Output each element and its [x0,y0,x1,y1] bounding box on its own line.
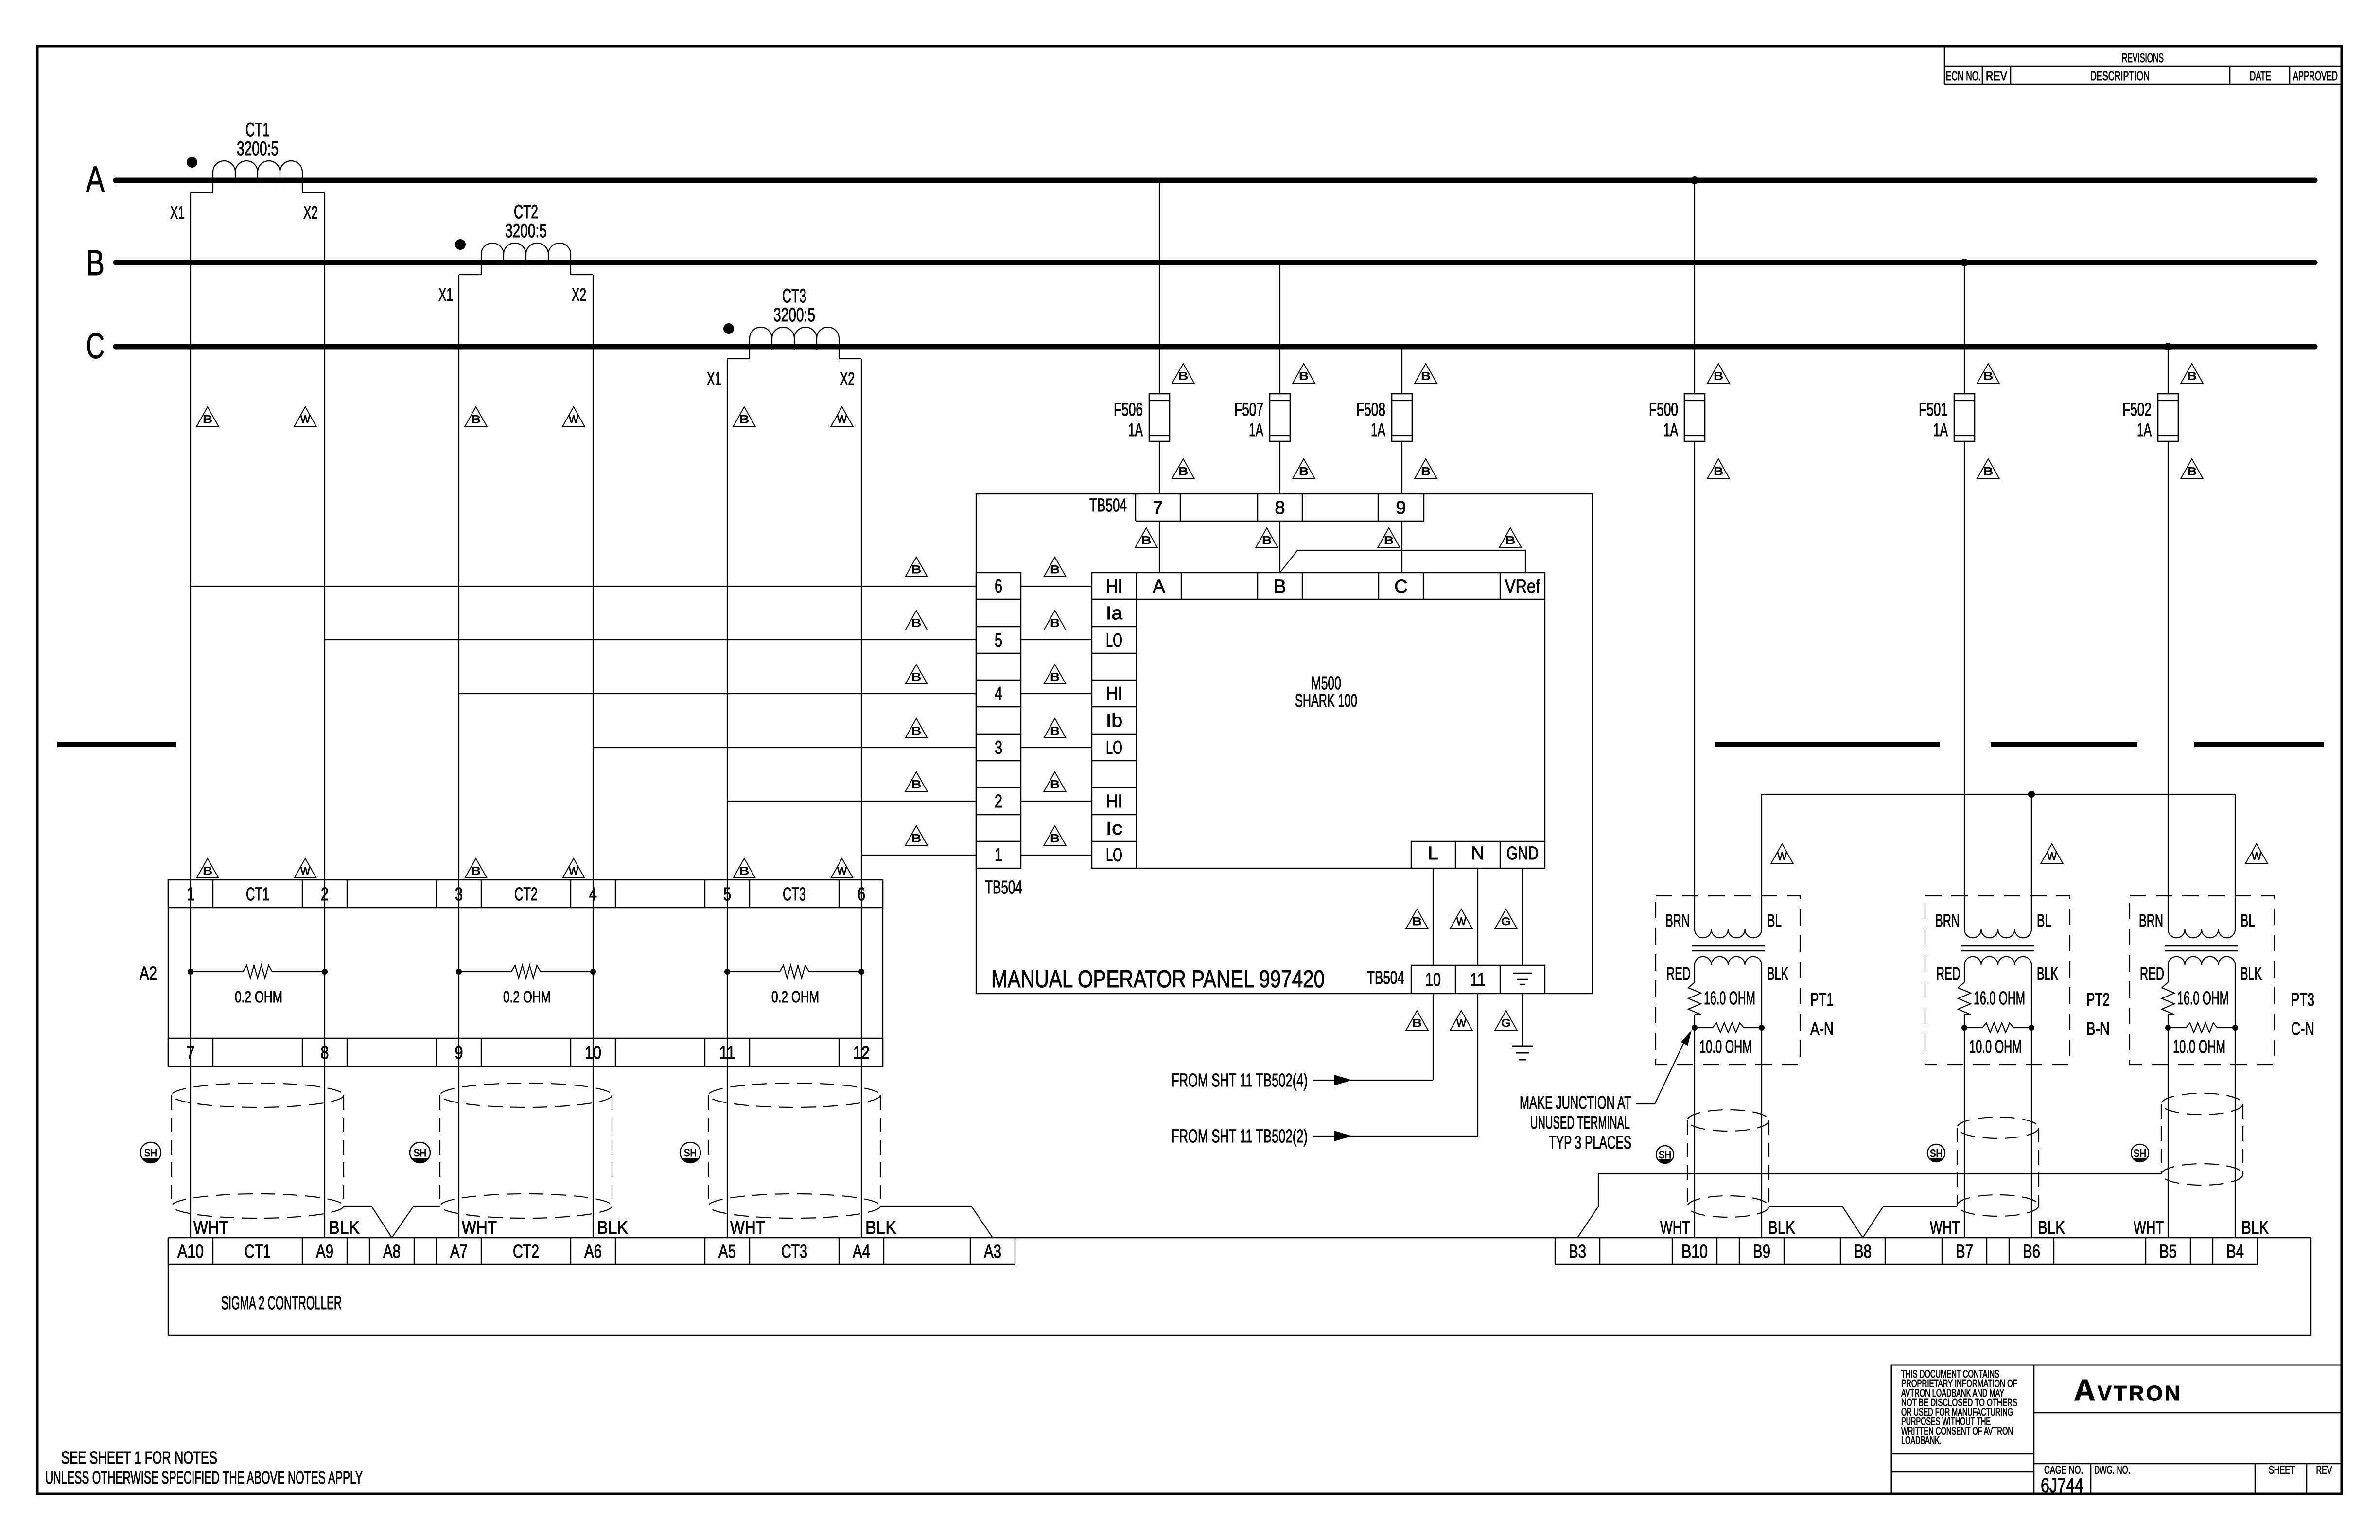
svg-text:CT2: CT2 [513,1242,539,1262]
svg-text:B10: B10 [1681,1242,1708,1262]
svg-text:SEE SHEET 1 FOR NOTES: SEE SHEET 1 FOR NOTES [61,1448,217,1468]
svg-text:TB504: TB504 [1089,495,1127,516]
svg-text:C-N: C-N [2291,1019,2314,1039]
svg-text:0.2 OHM: 0.2 OHM [235,988,282,1006]
svg-text:10: 10 [1425,970,1441,990]
svg-text:BRN: BRN [1665,910,1690,930]
svg-text:DESCRIPTION: DESCRIPTION [2090,69,2150,83]
svg-text:B9: B9 [1753,1242,1770,1262]
svg-text:F508: F508 [1356,400,1385,420]
svg-text:B: B [1141,534,1151,546]
svg-text:F501: F501 [1919,400,1948,420]
svg-text:BL: BL [1767,910,1782,930]
svg-text:9: 9 [455,1043,463,1063]
svg-text:REVISIONS: REVISIONS [2122,51,2164,65]
svg-text:CT1: CT1 [246,884,269,905]
svg-text:CT3: CT3 [783,884,806,905]
svg-text:N: N [1471,843,1484,864]
svg-text:B: B [739,865,749,877]
svg-text:6J744: 6J744 [2041,1474,2083,1497]
svg-text:B: B [911,832,921,844]
svg-text:C: C [1394,577,1407,597]
svg-text:7: 7 [1153,498,1163,518]
svg-text:B: B [911,778,921,790]
svg-text:10.0 OHM: 10.0 OHM [1699,1037,1752,1057]
svg-text:RED: RED [1666,963,1691,983]
svg-text:X1: X1 [438,285,453,305]
svg-text:B3: B3 [1569,1242,1586,1262]
svg-text:CT1: CT1 [245,1242,271,1262]
svg-text:6: 6 [857,884,865,905]
svg-text:F506: F506 [1114,400,1143,420]
svg-text:1A: 1A [2137,420,2152,440]
svg-text:WHT: WHT [193,1218,228,1238]
svg-text:3200:5: 3200:5 [237,138,279,159]
svg-text:F500: F500 [1649,400,1678,420]
svg-text:X2: X2 [840,369,855,389]
svg-text:BLK: BLK [597,1218,628,1238]
svg-text:B: B [1050,725,1060,737]
svg-text:2: 2 [321,884,329,905]
svg-text:W: W [300,413,310,425]
svg-text:SH: SH [414,1147,426,1159]
svg-text:A9: A9 [316,1242,333,1262]
svg-text:L: L [1428,843,1438,864]
svg-text:BLK: BLK [2038,1218,2065,1238]
svg-text:16.0 OHM: 16.0 OHM [1974,988,2025,1009]
svg-text:B: B [1050,778,1060,790]
svg-text:B: B [86,243,105,283]
svg-text:MAKE JUNCTION AT: MAKE JUNCTION AT [1520,1093,1631,1113]
svg-text:3: 3 [995,738,1002,758]
svg-text:X1: X1 [707,369,721,389]
svg-text:1A: 1A [1249,420,1263,440]
svg-text:B: B [1421,465,1431,477]
svg-text:WHT: WHT [1930,1218,1960,1238]
svg-text:Ic: Ic [1106,819,1122,839]
svg-text:W: W [300,865,310,877]
svg-text:BLK: BLK [1768,1218,1795,1238]
svg-text:B: B [1050,563,1060,576]
svg-text:PT2: PT2 [2086,990,2110,1010]
svg-text:B: B [471,865,481,877]
svg-text:B5: B5 [2159,1242,2177,1262]
svg-text:A6: A6 [584,1242,602,1262]
svg-text:B: B [2187,465,2197,477]
svg-text:DATE: DATE [2250,69,2271,83]
svg-text:A8: A8 [383,1242,401,1262]
svg-text:11: 11 [719,1043,735,1063]
svg-text:B6: B6 [2023,1242,2040,1262]
svg-text:3200:5: 3200:5 [773,304,815,326]
svg-text:LO: LO [1106,738,1122,758]
svg-text:SH: SH [1659,1149,1671,1161]
svg-text:B: B [1983,465,1993,477]
svg-text:B4: B4 [2226,1242,2244,1262]
svg-text:PT1: PT1 [1810,990,1834,1010]
svg-text:TYP 3 PLACES: TYP 3 PLACES [1549,1133,1631,1153]
svg-text:W: W [837,413,847,425]
svg-text:LOADBANK.: LOADBANK. [1901,1435,1942,1447]
svg-text:BL: BL [2240,910,2255,930]
svg-text:VRef: VRef [1505,577,1540,597]
svg-text:2: 2 [995,791,1002,812]
svg-text:UNUSED TERMINAL: UNUSED TERMINAL [1530,1113,1630,1133]
svg-text:Ib: Ib [1106,711,1122,731]
svg-text:B: B [1050,671,1060,683]
svg-text:G: G [1501,915,1511,927]
svg-text:B: B [1714,370,1723,382]
svg-text:B: B [911,617,921,629]
svg-text:B: B [471,413,481,425]
svg-text:B: B [911,563,921,576]
svg-text:BRN: BRN [2139,910,2163,930]
svg-text:W: W [2252,850,2261,862]
svg-text:B: B [739,413,749,425]
svg-text:FROM SHT 11 TB502(2): FROM SHT 11 TB502(2) [1172,1126,1308,1147]
svg-text:12: 12 [853,1043,870,1063]
svg-text:16.0 OHM: 16.0 OHM [2177,988,2229,1009]
svg-text:F507: F507 [1234,400,1263,420]
svg-text:11: 11 [1470,970,1486,990]
svg-text:B: B [1983,370,1993,382]
svg-text:BRN: BRN [1935,910,1960,930]
svg-text:B: B [1714,465,1723,477]
svg-text:TB504: TB504 [1367,968,1404,988]
svg-text:BL: BL [2037,910,2051,930]
svg-text:B: B [1299,370,1309,382]
svg-text:8: 8 [1275,498,1285,518]
svg-text:A: A [86,159,105,199]
svg-text:10.0 OHM: 10.0 OHM [2173,1037,2225,1057]
svg-text:3: 3 [455,884,463,905]
svg-text:B: B [1178,370,1188,382]
svg-text:LO: LO [1106,845,1122,866]
svg-text:SHARK 100: SHARK 100 [1295,691,1357,711]
svg-text:W: W [1456,915,1466,927]
svg-text:W: W [1777,850,1787,862]
svg-text:B: B [1050,617,1060,629]
svg-text:1: 1 [187,884,194,905]
svg-text:1A: 1A [1933,420,1948,440]
svg-text:DWG. NO.: DWG. NO. [2094,1464,2130,1477]
svg-text:BLK: BLK [2240,963,2262,983]
svg-text:WHT: WHT [730,1218,765,1238]
svg-text:A3: A3 [984,1242,1001,1262]
svg-text:10.0 OHM: 10.0 OHM [1969,1037,2022,1057]
svg-text:REV: REV [2316,1464,2332,1477]
svg-text:W: W [2047,850,2057,862]
svg-text:WHT: WHT [2134,1218,2164,1238]
svg-text:B: B [1505,534,1515,546]
svg-text:1A: 1A [1371,420,1385,440]
svg-text:1A: 1A [1663,420,1678,440]
svg-text:MANUAL OPERATOR PANEL 997420: MANUAL OPERATOR PANEL 997420 [991,965,1325,993]
svg-text:CT1: CT1 [245,119,270,140]
svg-text:SH: SH [144,1147,157,1159]
svg-text:BLK: BLK [865,1218,896,1238]
svg-text:B: B [911,725,921,737]
svg-text:8: 8 [321,1043,329,1063]
svg-text:B: B [1274,577,1286,597]
svg-text:CT2: CT2 [514,201,538,223]
svg-text:B7: B7 [1956,1242,1973,1262]
svg-text:4: 4 [589,884,597,905]
svg-text:A7: A7 [450,1242,468,1262]
svg-text:HI: HI [1106,791,1122,812]
svg-text:G: G [1501,1017,1511,1029]
svg-text:B: B [911,671,921,683]
svg-text:X1: X1 [170,203,185,223]
svg-text:REV: REV [1986,69,2008,83]
svg-text:Ia: Ia [1106,603,1123,624]
svg-text:A-N: A-N [1810,1019,1834,1039]
svg-text:TB504: TB504 [985,877,1022,898]
svg-text:CT3: CT3 [781,1242,807,1262]
svg-text:B: B [1262,534,1272,546]
svg-text:RED: RED [1936,963,1960,983]
svg-text:F502: F502 [2122,400,2152,420]
svg-text:B: B [1178,465,1188,477]
svg-text:10: 10 [585,1043,601,1063]
svg-text:PT3: PT3 [2291,990,2314,1010]
svg-text:APPROVED: APPROVED [2293,69,2338,83]
svg-text:X2: X2 [303,203,318,223]
svg-text:5: 5 [723,884,731,905]
svg-text:SIGMA 2 CONTROLLER: SIGMA 2 CONTROLLER [221,1293,342,1313]
svg-text:1: 1 [995,845,1002,866]
svg-text:W: W [1456,1017,1466,1029]
svg-text:WHT: WHT [1660,1218,1690,1238]
svg-text:FROM SHT 11 TB502(4): FROM SHT 11 TB502(4) [1172,1070,1308,1091]
svg-text:3200:5: 3200:5 [505,220,547,242]
svg-text:7: 7 [187,1043,195,1063]
svg-text:B: B [1421,370,1431,382]
svg-text:SHEET: SHEET [2269,1464,2295,1477]
svg-text:GND: GND [1506,843,1539,864]
svg-text:C: C [86,326,105,366]
svg-text:0.2 OHM: 0.2 OHM [503,988,551,1006]
svg-text:B: B [1412,915,1422,927]
svg-text:9: 9 [1396,498,1406,518]
svg-text:A5: A5 [718,1242,736,1262]
svg-text:4: 4 [995,684,1002,704]
svg-text:SH: SH [1930,1147,1942,1159]
svg-text:B: B [203,413,212,425]
svg-text:ECN NO.: ECN NO. [1946,69,1981,83]
svg-text:UNLESS OTHERWISE SPECIFIED THE: UNLESS OTHERWISE SPECIFIED THE ABOVE NOT… [45,1468,363,1487]
svg-text:CT3: CT3 [782,285,806,307]
svg-text:A4: A4 [853,1242,870,1262]
svg-text:W: W [569,413,578,425]
svg-text:A2: A2 [140,963,157,984]
svg-text:0.2 OHM: 0.2 OHM [771,988,819,1006]
svg-text:CT2: CT2 [514,884,538,905]
svg-text:BLK: BLK [1767,963,1788,983]
svg-text:6: 6 [995,577,1002,597]
svg-text:W: W [569,865,578,877]
svg-text:X2: X2 [572,285,586,305]
svg-text:B: B [1050,832,1060,844]
svg-text:HI: HI [1106,577,1122,597]
svg-text:1A: 1A [1128,420,1143,440]
svg-text:WHT: WHT [462,1218,497,1238]
svg-text:BLK: BLK [2037,963,2058,983]
svg-text:B8: B8 [1854,1242,1872,1262]
svg-text:B: B [2187,370,2197,382]
svg-text:A: A [1153,577,1165,597]
svg-text:16.0 OHM: 16.0 OHM [1704,988,1755,1009]
svg-text:HI: HI [1106,684,1122,704]
svg-text:BLK: BLK [329,1218,360,1238]
svg-text:BLK: BLK [2241,1218,2269,1238]
svg-text:W: W [837,865,847,877]
svg-text:RED: RED [2140,963,2164,983]
svg-text:B: B [1412,1017,1422,1029]
svg-text:B: B [203,865,212,877]
svg-text:LO: LO [1106,630,1122,651]
svg-text:SH: SH [684,1147,697,1159]
svg-text:5: 5 [995,630,1002,651]
svg-text:B: B [1384,534,1394,546]
svg-text:SH: SH [2134,1147,2146,1159]
svg-text:B: B [1299,465,1309,477]
svg-text:B-N: B-N [2086,1019,2110,1039]
svg-text:A10: A10 [177,1242,204,1262]
